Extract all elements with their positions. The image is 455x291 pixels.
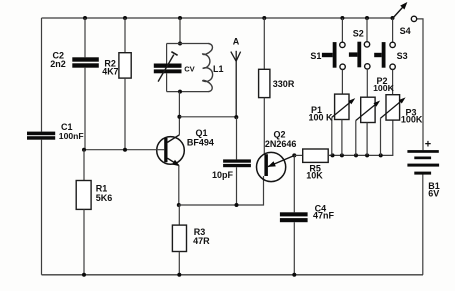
svg-text:5K6: 5K6 (96, 193, 113, 203)
svg-text:Q2: Q2 (274, 130, 286, 140)
wire S1 to P1 (341, 70, 343, 95)
transistor Q2 (257, 130, 297, 182)
wire pot bus (328, 120, 393, 155)
resistor R2 (102, 53, 131, 78)
node antenna tap (177, 115, 181, 119)
inductor L1 (203, 44, 224, 92)
node Q2 emitter (292, 153, 296, 157)
antenna A (231, 36, 241, 117)
capacitor C2 (50, 51, 99, 69)
svg-text:BF494: BF494 (187, 138, 214, 148)
svg-text:S2: S2 (353, 28, 364, 38)
node R2 top (123, 16, 127, 20)
node R1 ground (82, 273, 86, 277)
switch S4 (393, 3, 417, 36)
node 330R top (262, 16, 266, 20)
node Q1 emitter (177, 203, 181, 207)
node bus P3 wiper (379, 153, 383, 157)
node antenna junction (234, 115, 238, 119)
svg-text:L1: L1 (213, 64, 224, 74)
resistor R3 (172, 205, 210, 275)
wire CV bottom lead (166, 73, 168, 91)
wire Q1 emitter (178, 165, 180, 205)
capacitor 10pF (212, 159, 251, 179)
node base R2 (123, 148, 127, 152)
svg-text:S1: S1 (310, 51, 321, 61)
potentiometer P1 (309, 94, 355, 155)
wire R2 bottom (124, 78, 126, 150)
svg-text:R1: R1 (96, 183, 108, 193)
wire left rail lower (41, 140, 43, 275)
capacitor CV (154, 52, 196, 82)
wire 10pF bottom (236, 167, 238, 205)
wire CV top lead (166, 44, 168, 64)
capacitor C4 (280, 155, 335, 274)
wire tank top feed (179, 18, 181, 44)
svg-text:S4: S4 (400, 26, 411, 36)
transistor Q1 (157, 128, 214, 165)
node bus P1 wiper (331, 153, 335, 157)
svg-text:100 K: 100 K (309, 112, 334, 122)
wire tank top (167, 43, 210, 45)
node C4 ground (292, 273, 296, 277)
svg-text:47nF: 47nF (313, 210, 335, 220)
potentiometer P3 (381, 95, 423, 156)
svg-text:CV: CV (184, 65, 195, 74)
switch S2 (349, 18, 370, 69)
resistor R1 (76, 150, 112, 275)
wire S2 to P2 (366, 69, 368, 97)
wire left rail upper (41, 18, 43, 132)
wire emitter to Q2 base1 (179, 176, 264, 205)
wire C2 top (84, 18, 86, 57)
wire R2 top (124, 18, 126, 53)
wire battery bottom feed (422, 174, 424, 274)
potentiometer P2 (356, 76, 395, 155)
svg-text:10pF: 10pF (212, 170, 234, 180)
node bus P2 bottom (365, 153, 369, 157)
resistor R5 (294, 149, 328, 181)
wire Q1 base (84, 149, 164, 151)
svg-text:4K7: 4K7 (102, 66, 118, 76)
node bus P1 bottom (340, 153, 344, 157)
svg-text:2N2646: 2N2646 (265, 139, 297, 149)
switch S1 (310, 18, 345, 70)
node tank feed top (178, 16, 182, 20)
node R3 ground (177, 273, 181, 277)
wire S3 to P3 (392, 70, 394, 95)
wire tank to collector (178, 92, 180, 135)
node C2 top (83, 16, 87, 20)
capacitor C1 (27, 122, 84, 141)
wire antenna horizontal (179, 116, 236, 118)
node S2 top (365, 16, 369, 20)
wire bottom rail (42, 274, 424, 276)
svg-text:100K: 100K (373, 83, 394, 93)
node tank bottom (178, 90, 182, 94)
svg-text:2n2: 2n2 (50, 59, 66, 69)
node base left (82, 148, 86, 152)
svg-text:+: + (425, 139, 431, 151)
node 10pF junction (235, 203, 239, 207)
wire top rail (42, 17, 393, 19)
resistor 330R (259, 18, 295, 154)
svg-text:47R: 47R (193, 236, 210, 246)
svg-text:S3: S3 (397, 51, 408, 61)
svg-text:A: A (233, 36, 240, 46)
svg-text:330R: 330R (273, 79, 295, 89)
node tank top (178, 42, 182, 46)
svg-text:100K: 100K (401, 115, 423, 125)
svg-text:6V: 6V (428, 188, 439, 198)
battery B1 (407, 139, 439, 199)
svg-text:10K: 10K (306, 171, 323, 181)
wire C2 bottom (84, 68, 86, 150)
wire tank bottom (167, 91, 210, 93)
switch S3 (374, 18, 407, 70)
node S1 top (340, 16, 344, 20)
wire battery top feed (417, 19, 423, 150)
wire 10pF top (236, 117, 238, 159)
svg-text:100nF: 100nF (59, 131, 84, 141)
node bus P2 wiper (354, 153, 358, 157)
node S3 top (391, 16, 395, 20)
